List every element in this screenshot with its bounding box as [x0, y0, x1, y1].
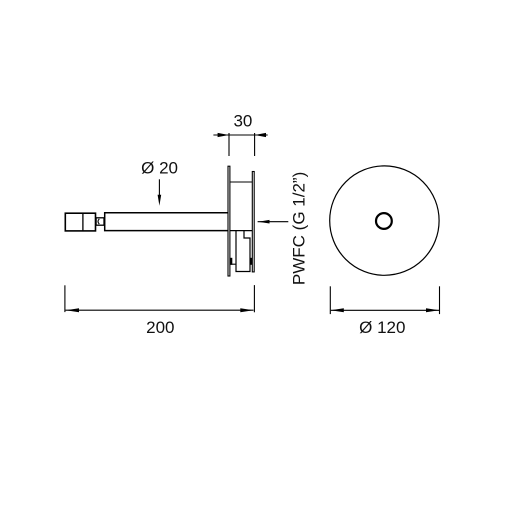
svg-text:200: 200: [146, 318, 174, 337]
svg-text:30: 30: [233, 111, 252, 130]
svg-text:PWFC (G 1/2”): PWFC (G 1/2”): [290, 172, 309, 285]
svg-text:Ø 120: Ø 120: [359, 318, 405, 337]
svg-text:Ø 20: Ø 20: [141, 159, 178, 178]
